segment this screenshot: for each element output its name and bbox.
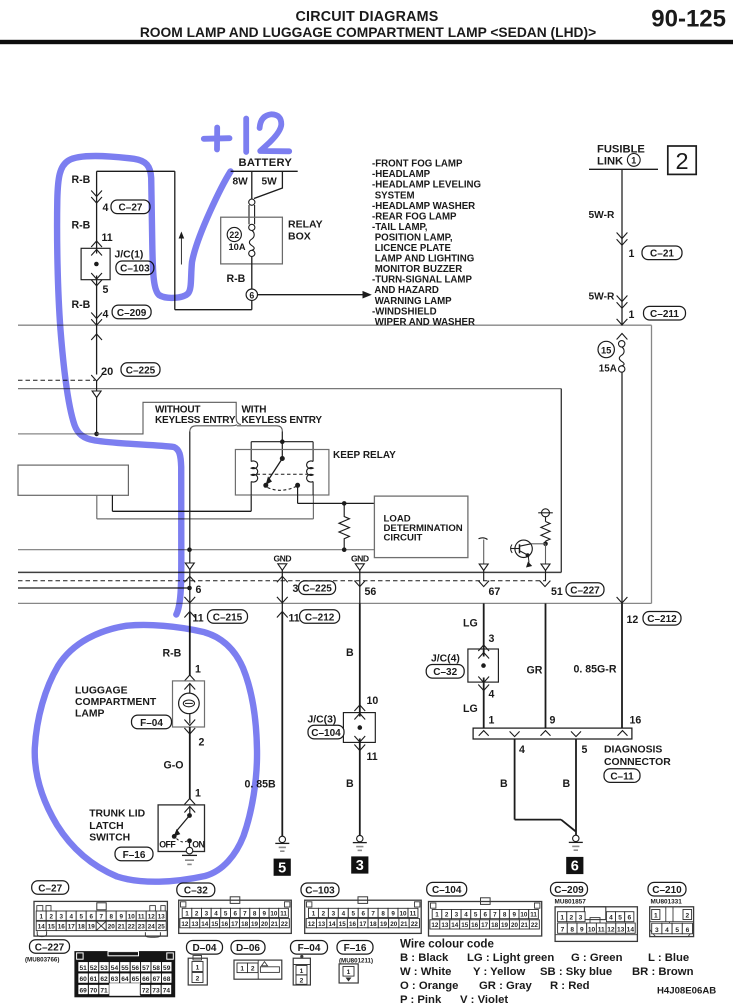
fuse 15 symbol — [619, 341, 625, 347]
svg-text:20: 20 — [108, 924, 116, 931]
gray frame right edge — [651, 325, 653, 603]
svg-text:25: 25 — [158, 924, 166, 931]
dashed stub line — [18, 379, 95, 381]
svg-text:14: 14 — [451, 922, 459, 929]
svg-text:4: 4 — [214, 911, 218, 918]
svg-text:59: 59 — [163, 965, 171, 972]
connector C-103 pins row2 — [306, 919, 316, 928]
svg-text:13: 13 — [617, 926, 625, 933]
connector label C-211 inline — [644, 306, 686, 320]
svg-text:55: 55 — [121, 965, 129, 972]
svg-text:TRUNK LID: TRUNK LID — [89, 809, 145, 820]
transistor Q1 — [515, 540, 532, 557]
connector label F-16 pinout — [337, 941, 373, 955]
svg-text:-HEADLAMP WASHER: -HEADLAMP WASHER — [372, 201, 475, 212]
wire stub 67 with curl — [479, 538, 488, 540]
trunk switch ON contact — [187, 838, 192, 843]
svg-text:L : Blue: L : Blue — [648, 952, 689, 964]
svg-text:BR : Brown: BR : Brown — [632, 966, 694, 978]
connector C-104 body — [429, 902, 542, 937]
svg-text:12: 12 — [308, 921, 316, 928]
svg-text:6: 6 — [627, 915, 631, 922]
arrow to lamp list — [258, 294, 365, 296]
svg-text:67: 67 — [153, 976, 161, 983]
svg-text:C–103: C–103 — [305, 886, 335, 897]
svg-text:LAMP AND LIGHTING: LAMP AND LIGHTING — [372, 254, 474, 265]
connector chevrons C-209 — [91, 313, 102, 319]
svg-text:14: 14 — [38, 924, 46, 931]
svg-text:1: 1 — [195, 664, 201, 676]
svg-text:-WINDSHIELD: -WINDSHIELD — [372, 306, 437, 317]
diagnosis pin chevrons — [479, 731, 489, 736]
svg-text:73: 73 — [152, 988, 160, 995]
svg-text:GND: GND — [273, 554, 291, 564]
svg-text:11: 11 — [138, 913, 145, 920]
svg-text:6: 6 — [234, 911, 238, 918]
svg-text:C–32: C–32 — [433, 667, 457, 678]
connector row dashed line — [18, 580, 546, 582]
connector label C-27 pinout — [32, 881, 69, 895]
svg-text:4: 4 — [519, 744, 525, 756]
svg-text:COMPARTMENT: COMPARTMENT — [75, 697, 157, 708]
wire gnd bus — [18, 549, 374, 551]
svg-text:3: 3 — [59, 913, 63, 920]
chevrons out of J/C(3) — [354, 736, 365, 742]
wire battery drop — [251, 171, 253, 199]
svg-text:-REAR FOG LAMP: -REAR FOG LAMP — [372, 211, 457, 222]
relay box outline — [221, 217, 283, 264]
svg-text:C–27: C–27 — [38, 883, 62, 894]
wire diag pin5 B — [575, 739, 577, 835]
chevrons lamp wire bus4 — [184, 597, 195, 603]
wire G-O — [189, 727, 191, 799]
chevrons gnd1 wire bus4 — [277, 597, 288, 603]
svg-text:17: 17 — [359, 921, 367, 928]
svg-text:D–04: D–04 — [193, 943, 217, 954]
connector label C-27 inline — [111, 200, 150, 214]
circled 1 fusible link — [627, 154, 640, 167]
trunk switch F-16 box — [158, 805, 204, 852]
svg-text:CIRCUIT DIAGRAMS: CIRCUIT DIAGRAMS — [296, 9, 439, 25]
svg-text:9: 9 — [550, 715, 556, 727]
wire B lower — [359, 739, 361, 836]
wire 0.85G-R — [621, 603, 623, 728]
svg-text:62: 62 — [100, 976, 108, 983]
svg-text:1: 1 — [195, 788, 201, 800]
svg-text:WARNING LAMP: WARNING LAMP — [372, 296, 452, 307]
svg-text:2: 2 — [322, 911, 326, 918]
wire without-keyless drop — [189, 432, 191, 564]
svg-text:LAMP: LAMP — [75, 708, 105, 719]
svg-text:MONITOR BUZZER: MONITOR BUZZER — [372, 264, 462, 275]
connector C-27 pins row2 — [36, 921, 46, 930]
svg-text:12: 12 — [181, 921, 189, 928]
svg-text:18: 18 — [370, 921, 378, 928]
svg-text:53: 53 — [100, 965, 108, 972]
connector chevrons C-21 — [617, 233, 628, 239]
svg-text:66: 66 — [142, 976, 150, 983]
svg-text:GND: GND — [351, 554, 369, 564]
svg-text:18: 18 — [241, 921, 249, 928]
svg-text:3: 3 — [205, 911, 209, 918]
svg-text:11: 11 — [530, 912, 537, 919]
svg-text:6: 6 — [89, 913, 93, 920]
chevron at dashed stub — [91, 375, 102, 381]
svg-text:10: 10 — [367, 695, 379, 707]
svg-text:1: 1 — [631, 155, 636, 165]
svg-text:-TAIL LAMP,: -TAIL LAMP, — [372, 222, 428, 233]
svg-text:56: 56 — [132, 965, 140, 972]
svg-text:9: 9 — [391, 911, 395, 918]
svg-text:1: 1 — [196, 965, 200, 972]
connector C-32 pins row2 — [180, 919, 190, 928]
svg-text:7: 7 — [561, 926, 565, 933]
svg-text:1: 1 — [240, 966, 244, 973]
svg-text:8: 8 — [503, 912, 507, 919]
svg-text:(MU803766): (MU803766) — [25, 956, 59, 963]
svg-text:SB : Sky blue: SB : Sky blue — [540, 966, 612, 978]
svg-text:16: 16 — [471, 922, 479, 929]
luggage lamp bulb — [189, 684, 191, 694]
ETACS box right edge — [560, 389, 562, 573]
svg-text:V : Violet: V : Violet — [460, 994, 508, 1006]
svg-text:15: 15 — [461, 922, 469, 929]
chevron at bus4 — [617, 597, 628, 603]
keep relay box — [235, 450, 329, 496]
svg-text:17: 17 — [481, 922, 489, 929]
svg-text:9: 9 — [119, 913, 123, 920]
connector label C-32 inline — [426, 665, 464, 679]
svg-text:KEYLESS ENTRY: KEYLESS ENTRY — [155, 415, 236, 426]
svg-text:8: 8 — [570, 926, 574, 933]
chevrons into lamp — [184, 675, 195, 681]
wire 0.85B — [281, 612, 283, 836]
wire pin6 down-left — [251, 300, 253, 309]
ground block 5 — [274, 859, 291, 876]
svg-text:Wire colour code: Wire colour code — [400, 938, 495, 951]
wire R-B luggage — [189, 612, 191, 676]
svg-text:12: 12 — [431, 922, 439, 929]
svg-text:DIAGNOSIS: DIAGNOSIS — [604, 745, 662, 756]
svg-text:0. 85G-R: 0. 85G-R — [574, 663, 617, 675]
wire R-B top horizontal — [97, 170, 175, 172]
connector label C-225 row — [299, 581, 336, 595]
svg-text:KEEP RELAY: KEEP RELAY — [333, 450, 396, 461]
svg-text:3: 3 — [655, 927, 659, 934]
wire pin6 feed — [18, 587, 190, 589]
triangle lamp-feed wire — [185, 563, 194, 570]
svg-text:MU801331: MU801331 — [651, 898, 683, 905]
battery bus line — [231, 170, 298, 172]
svg-text:11: 11 — [289, 612, 300, 624]
svg-text:C–212: C–212 — [647, 614, 677, 625]
svg-text:3: 3 — [356, 858, 364, 874]
svg-text:7: 7 — [371, 911, 375, 918]
svg-text:21: 21 — [521, 922, 529, 929]
connector label C-225 inline — [121, 363, 160, 377]
svg-text:1: 1 — [629, 248, 635, 260]
svg-text:17: 17 — [231, 921, 239, 928]
svg-text:GR: GR — [527, 665, 543, 677]
svg-text:5: 5 — [103, 284, 109, 296]
junction box J/C(3) — [343, 713, 375, 743]
connector C-210 body — [650, 907, 694, 937]
svg-text:POSITION LAMP,: POSITION LAMP, — [372, 232, 453, 243]
svg-text:3: 3 — [332, 911, 336, 918]
connector chevrons C-211 — [617, 296, 628, 302]
svg-text:20: 20 — [261, 921, 269, 928]
svg-text:4: 4 — [464, 912, 468, 919]
svg-text:16: 16 — [349, 921, 357, 928]
with-keyless bracket — [190, 425, 237, 432]
svg-text:G-O: G-O — [164, 759, 184, 771]
svg-text:KEYLESS ENTRY: KEYLESS ENTRY — [242, 415, 323, 426]
svg-text:1: 1 — [489, 715, 495, 727]
fusible link bus line — [589, 168, 658, 170]
wire gnd1 pin drop — [281, 570, 283, 613]
svg-text:CONNECTOR: CONNECTOR — [604, 757, 671, 768]
wire other-circuit bus 2 — [18, 388, 561, 390]
svg-text:F–04: F–04 — [140, 718, 163, 729]
svg-text:24: 24 — [148, 924, 156, 931]
svg-text:70: 70 — [90, 988, 98, 995]
svg-text:57: 57 — [142, 965, 150, 972]
svg-text:WITHOUT: WITHOUT — [155, 405, 200, 416]
svg-text:9: 9 — [262, 911, 266, 918]
connector label C-209 inline — [112, 305, 151, 319]
connector C-227 pins row2 — [78, 973, 88, 983]
svg-text:4: 4 — [103, 202, 109, 214]
wire L bottom horizontal — [175, 309, 252, 311]
svg-text:4: 4 — [103, 308, 109, 320]
wire 67 pin drop — [483, 571, 485, 581]
svg-text:C–225: C–225 — [302, 584, 332, 595]
svg-text:10A: 10A — [229, 242, 246, 252]
svg-text:5W: 5W — [262, 176, 278, 187]
svg-text:C–210: C–210 — [652, 885, 682, 896]
wire B upper — [359, 603, 361, 716]
svg-text:BATTERY: BATTERY — [239, 157, 293, 169]
connector label C-212 inline — [643, 612, 681, 626]
connector label F-04 pinout — [291, 941, 328, 955]
ground diagnosis — [573, 835, 579, 841]
wire keep-relay coil return upper — [111, 495, 113, 511]
junction keyless split — [94, 432, 99, 437]
svg-text:10: 10 — [270, 911, 278, 918]
connector label C-209 pinout — [551, 882, 588, 896]
svg-text:2: 2 — [300, 977, 304, 984]
svg-text:ROOM LAMP AND LUGGAGE COMPARTM: ROOM LAMP AND LUGGAGE COMPARTMENT LAMP <… — [140, 25, 596, 40]
connector label C-227 row — [566, 583, 604, 597]
gnd triangle 1 — [278, 564, 287, 571]
keep relay right coil — [307, 461, 314, 482]
svg-text:22: 22 — [411, 921, 419, 928]
chevron below bus1 at 5W-R — [617, 319, 628, 325]
keep relay top wire — [251, 441, 313, 443]
connector label D-06 pinout — [231, 941, 265, 955]
svg-text:12: 12 — [627, 614, 639, 626]
wire keep-relay coil return lower — [96, 495, 98, 519]
gnd triangle 2 — [355, 564, 364, 571]
connector C-209 body — [555, 907, 637, 942]
svg-text:6: 6 — [571, 859, 579, 875]
svg-text:11: 11 — [367, 751, 378, 763]
svg-text:R-B: R-B — [72, 299, 91, 311]
svg-text:51: 51 — [551, 586, 563, 598]
connector label C-212 row — [300, 610, 340, 624]
svg-text:6: 6 — [686, 927, 690, 934]
power tap symbol — [542, 509, 550, 517]
terminal circle 6 — [246, 289, 257, 300]
annotation +12 plus sign — [204, 128, 230, 150]
connector label C-32 pinout — [177, 883, 215, 897]
chevron below bus1 — [91, 334, 102, 340]
svg-text:10: 10 — [128, 913, 136, 920]
svg-text:14: 14 — [627, 926, 635, 933]
connector C-104 pins row1 — [432, 910, 442, 919]
wire emitter-gnd drop — [545, 544, 547, 564]
svg-text:1: 1 — [435, 912, 439, 919]
svg-text:5: 5 — [618, 915, 622, 922]
svg-text:-TURN-SIGNAL LAMP: -TURN-SIGNAL LAMP — [372, 275, 472, 286]
ground 0.85B — [279, 836, 285, 842]
svg-text:2: 2 — [569, 915, 573, 922]
svg-text:WIPER AND WASHER: WIPER AND WASHER — [372, 317, 475, 328]
svg-text:8W: 8W — [233, 176, 249, 187]
wire 5W-R upper — [621, 169, 623, 325]
svg-text:19: 19 — [251, 921, 259, 928]
svg-text:52: 52 — [90, 965, 98, 972]
svg-text:11: 11 — [102, 232, 113, 244]
svg-text:64: 64 — [121, 976, 129, 983]
svg-text:20: 20 — [101, 366, 113, 378]
connector label C-210 pinout — [648, 882, 686, 896]
svg-text:15A: 15A — [599, 363, 617, 374]
svg-text:C–211: C–211 — [650, 309, 679, 320]
chevrons into J/C(4) — [478, 645, 489, 651]
svg-text:6: 6 — [249, 290, 254, 300]
wire R-B below J/C — [96, 276, 98, 375]
svg-text:20: 20 — [390, 921, 398, 928]
svg-text:F–04: F–04 — [298, 943, 321, 954]
wire R-B vertical — [96, 171, 98, 253]
svg-text:1: 1 — [629, 309, 635, 321]
svg-text:16: 16 — [630, 715, 642, 727]
svg-text:5: 5 — [278, 860, 286, 876]
svg-text:63: 63 — [111, 976, 119, 983]
svg-text:17: 17 — [68, 924, 76, 931]
wire keep relay feed — [281, 432, 283, 459]
svg-text:C–104: C–104 — [432, 885, 462, 896]
svg-text:7: 7 — [243, 911, 247, 918]
junction on gnd bus at lamp wire — [187, 547, 192, 552]
svg-text:2: 2 — [196, 976, 200, 983]
svg-text:J/C(4): J/C(4) — [431, 654, 460, 665]
fuse 22 circled number — [227, 227, 241, 241]
svg-text:1: 1 — [312, 911, 316, 918]
connector label C-103 pinout — [301, 883, 339, 897]
connector label C-21 inline — [642, 246, 682, 260]
annotation circle around luggage lamp circuit — [35, 625, 257, 882]
svg-text:OFF: OFF — [159, 840, 176, 850]
without-keyless routing line — [97, 402, 241, 434]
svg-text:2: 2 — [445, 912, 449, 919]
keep relay dashed link — [257, 473, 308, 475]
keep relay left coil — [251, 461, 258, 482]
pin chevron 67 — [478, 581, 489, 587]
wire other-circuit bus 3 — [18, 433, 97, 435]
junction transistor collector — [543, 542, 548, 547]
svg-text:-FRONT FOG LAMP: -FRONT FOG LAMP — [372, 159, 463, 170]
circled 15 — [598, 341, 614, 357]
svg-text:3: 3 — [293, 583, 299, 595]
svg-text:58: 58 — [153, 965, 161, 972]
svg-text:7: 7 — [99, 913, 103, 920]
svg-text:5W-R: 5W-R — [589, 210, 615, 221]
svg-text:5W-R: 5W-R — [589, 292, 615, 303]
svg-text:4: 4 — [342, 911, 346, 918]
wire 51 pin drop — [545, 571, 547, 581]
svg-text:15: 15 — [339, 921, 347, 928]
svg-text:6: 6 — [196, 584, 202, 596]
svg-text:11: 11 — [598, 926, 605, 933]
svg-text:LUGGAGE: LUGGAGE — [75, 685, 128, 696]
svg-text:22: 22 — [531, 922, 539, 929]
svg-text:11: 11 — [410, 911, 417, 918]
svg-text:C–215: C–215 — [213, 612, 243, 623]
svg-text:C–212: C–212 — [305, 612, 335, 623]
svg-text:4: 4 — [489, 689, 495, 701]
trunk switch contact arc — [177, 839, 188, 842]
svg-text:4: 4 — [609, 915, 613, 922]
svg-text:16: 16 — [58, 924, 66, 931]
svg-text:4: 4 — [69, 913, 73, 920]
ground block 6 — [566, 857, 583, 874]
svg-text:13: 13 — [318, 921, 326, 928]
svg-text:8: 8 — [381, 911, 385, 918]
pin chevron 51 — [540, 581, 551, 587]
svg-text:12: 12 — [607, 926, 615, 933]
svg-text:69: 69 — [79, 988, 87, 995]
ETACS box bottom edge — [18, 571, 561, 573]
connector C-32 body — [179, 900, 292, 933]
svg-text:RELAY: RELAY — [288, 219, 323, 231]
svg-text:7: 7 — [493, 912, 497, 919]
junction box J/C(1) — [81, 248, 110, 279]
annotation digit 1 — [243, 119, 249, 153]
junction pin6 — [187, 586, 192, 591]
svg-text:1: 1 — [300, 968, 304, 975]
connector label C-227 pinout — [30, 940, 70, 954]
svg-text:23: 23 — [138, 924, 146, 931]
svg-text:15: 15 — [211, 921, 219, 928]
connector label F-04 inline — [132, 715, 172, 729]
svg-text:B: B — [500, 778, 508, 790]
junction box J/C(4) — [468, 649, 499, 682]
connector label D-04 pinout — [187, 941, 223, 955]
wire fuse to pin6 — [251, 257, 253, 290]
svg-text:5: 5 — [474, 912, 478, 919]
pin chevron gnd1 wire — [277, 576, 288, 582]
connector label C-11 — [604, 769, 640, 783]
wire collector link — [531, 543, 546, 545]
svg-text:13: 13 — [158, 913, 166, 920]
load determination circuit box — [374, 496, 468, 557]
connector F-16 body — [339, 964, 358, 983]
svg-text:2: 2 — [49, 913, 53, 920]
svg-text:C–227: C–227 — [35, 942, 65, 953]
svg-text:15: 15 — [601, 344, 611, 355]
